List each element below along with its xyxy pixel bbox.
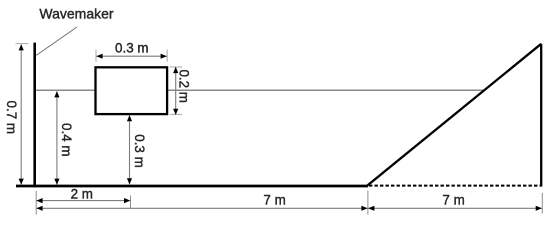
dimension 0.4 m (water depth) [54, 91, 74, 185]
water line right segment [168, 89, 485, 91]
wavemaker wall [33, 43, 36, 188]
beach slope [368, 44, 542, 186]
dimension 7 m (wall to slope toe) [36, 192, 367, 211]
extension line right end [541, 193, 543, 213]
dashed floor line [369, 185, 540, 187]
right wall [540, 44, 542, 187]
svg-text:Wavemaker: Wavemaker [39, 6, 114, 22]
extension line left (below floor) [35, 191, 37, 215]
svg-text:2 m: 2 m [71, 186, 93, 201]
dimension 0.3 m (box draft clearance) [127, 115, 147, 184]
svg-text:0.4 m: 0.4 m [59, 123, 74, 157]
svg-text:0.3 m: 0.3 m [115, 41, 149, 56]
dimension 7 m (slope run) [368, 192, 542, 211]
tank floor [16, 185, 368, 188]
svg-text:0.3 m: 0.3 m [132, 134, 147, 168]
extension line at 2 m mark [130, 196, 132, 209]
water line left segment [36, 89, 95, 91]
extension line at slope toe [367, 191, 369, 215]
svg-text:7 m: 7 m [442, 192, 464, 207]
dimension 0.2 m (box height) [170, 67, 192, 115]
svg-text:0.2 m: 0.2 m [177, 69, 192, 103]
leader line [36, 27, 77, 56]
dimension 0.7 m (tank depth) [4, 44, 28, 185]
svg-text:7 m: 7 m [263, 192, 285, 207]
dimension 2 m [36, 186, 130, 203]
svg-text:0.7 m: 0.7 m [4, 101, 19, 135]
dimension 0.3 m (box width) [96, 41, 167, 62]
floating box [96, 67, 168, 114]
